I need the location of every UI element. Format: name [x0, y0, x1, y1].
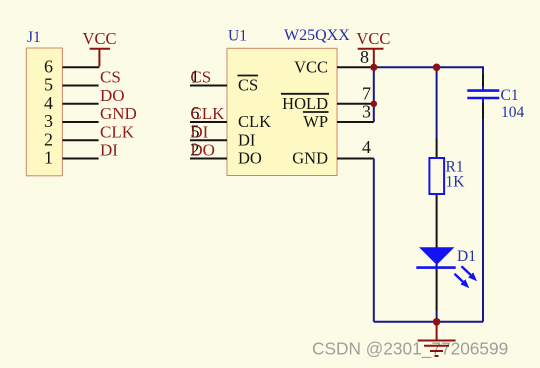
capacitor C1 leads: [482, 74, 484, 119]
U1 pin name CS with overline: [238, 76, 259, 95]
svg-text:CS: CS: [238, 76, 258, 95]
wire GND pin4 down vertical: [373, 159, 375, 322]
D1 designator: [457, 248, 476, 265]
C1 designator: [501, 87, 519, 104]
net label CLK (J1): [100, 122, 135, 141]
svg-text:DO: DO: [100, 86, 125, 105]
svg-text:D1: D1: [457, 248, 476, 265]
wire C1 top stub: [482, 66, 484, 74]
U1 pin 7 (HOLD) wire: [337, 83, 374, 104]
U1 part number W25QXX: [284, 27, 350, 44]
wire bottom ground rail: [374, 321, 483, 323]
LED D1 triangle: [419, 247, 454, 265]
wire C1 bottom long: [482, 119, 484, 322]
wire LED bottom stub: [436, 311, 438, 322]
svg-text:VCC: VCC: [356, 29, 390, 48]
svg-text:C1: C1: [501, 87, 519, 104]
U1 pin name GND: [292, 149, 328, 168]
svg-text:GND: GND: [292, 149, 328, 168]
J1 pin 3: [44, 111, 99, 131]
svg-text:4: 4: [44, 93, 53, 113]
capacitor C1 plates: [467, 91, 499, 98]
U1 pin DO (pin 2) wire: [190, 140, 227, 160]
svg-text:CS: CS: [100, 68, 121, 87]
svg-text:5: 5: [44, 75, 53, 95]
J1 pin 4: [44, 93, 99, 113]
svg-text:VCC: VCC: [294, 57, 328, 76]
wire pin8 to pin7/pin3 vertical: [373, 67, 375, 122]
net label GND (J1): [100, 104, 137, 123]
svg-text:2: 2: [44, 129, 53, 149]
svg-text:7: 7: [362, 83, 371, 103]
U1 pin name DI: [238, 130, 255, 149]
R1 designator: [446, 159, 464, 176]
svg-text:WP: WP: [303, 112, 328, 131]
svg-text:HOLD: HOLD: [282, 94, 328, 113]
connector J1 body: [26, 48, 62, 176]
U1 pin CLK (pin 6) wire: [190, 103, 227, 123]
LED D1 cathode bar: [416, 266, 455, 269]
svg-text:3: 3: [362, 102, 371, 122]
J1 pin 6: [44, 56, 99, 76]
resistor R1 body: [429, 158, 444, 194]
junction dot VCC rail / R1 branch: [433, 64, 441, 72]
svg-text:DI: DI: [238, 130, 255, 149]
svg-text:GND: GND: [100, 104, 137, 123]
net label DO (J1): [100, 86, 125, 105]
svg-text:1: 1: [44, 148, 53, 168]
LED D1 anode lead: [436, 247, 438, 311]
svg-text:CSDN @2301_77206599: CSDN @2301_77206599: [312, 339, 508, 359]
power port VCC at U1 pin 8: [356, 29, 390, 67]
junction dot pin7: [371, 101, 378, 108]
wire VCC horizontal rail: [374, 66, 483, 68]
U1 pin name DO: [238, 149, 262, 168]
svg-text:DI: DI: [190, 122, 208, 141]
net label DI (J1): [100, 141, 118, 160]
net label CS (J1): [100, 68, 121, 87]
svg-text:3: 3: [44, 111, 53, 131]
svg-text:J1: J1: [27, 29, 41, 46]
U1 pin name CLK: [238, 112, 271, 131]
svg-text:VCC: VCC: [83, 29, 117, 48]
LED D1 emission arrow 2: [455, 274, 470, 288]
svg-text:CLK: CLK: [238, 112, 271, 131]
resistor R1 leads: [436, 139, 438, 248]
U1 pin name WP with overline: [303, 112, 329, 131]
svg-text:CLK: CLK: [190, 104, 225, 123]
svg-text:DI: DI: [100, 141, 118, 160]
J1 pin 5: [44, 75, 99, 95]
U1 pin name HOLD with overline: [281, 94, 329, 113]
U1 pin CS (pin 1) wire: [190, 67, 227, 87]
net label DI (U1): [190, 122, 208, 141]
U1 pin name VCC: [294, 57, 328, 76]
U1 pin 8 (VCC) wire: [337, 47, 374, 68]
svg-text:DO: DO: [238, 149, 262, 168]
svg-text:4: 4: [362, 137, 371, 157]
junction dot pin8/VCC: [370, 64, 377, 71]
svg-text:W25QXX: W25QXX: [284, 27, 350, 44]
wire R1 branch upper: [436, 67, 438, 138]
net label CS (U1): [190, 68, 211, 87]
U1 pin 4 (GND) wire: [337, 137, 374, 158]
svg-text:CLK: CLK: [100, 122, 135, 141]
IC U1 body: [227, 48, 337, 175]
net label CLK (U1): [190, 104, 225, 123]
J1 pin 2: [44, 129, 99, 149]
power port VCC at J1: [83, 29, 117, 66]
power ground symbol: [418, 322, 456, 356]
U1 designator: [228, 28, 247, 45]
C1 value 104: [501, 104, 525, 121]
svg-text:1K: 1K: [446, 174, 466, 191]
svg-text:CS: CS: [190, 68, 211, 87]
junction dot ground rail: [433, 318, 441, 326]
svg-text:6: 6: [44, 56, 53, 76]
J1 designator: [27, 29, 41, 46]
R1 value 1K: [446, 174, 466, 191]
U1 pin 3 (WP) wire: [337, 102, 374, 123]
svg-text:104: 104: [501, 104, 525, 121]
svg-text:U1: U1: [228, 28, 247, 45]
net label DO (U1): [190, 141, 215, 160]
J1 pin 1: [44, 148, 99, 168]
U1 pin DI (pin 5) wire: [190, 121, 227, 141]
watermark CSDN: [312, 339, 508, 359]
svg-text:DO: DO: [190, 141, 215, 160]
LED D1 emission arrow 1: [462, 266, 478, 281]
